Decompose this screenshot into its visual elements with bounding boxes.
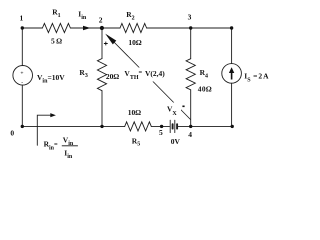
label node 0 bbox=[10, 129, 14, 138]
svg-text:R2: R2 bbox=[126, 10, 134, 21]
label Rin equation bbox=[44, 140, 58, 152]
resistor R3 bbox=[97, 59, 106, 91]
label R5 bbox=[132, 136, 140, 147]
arrowhead VTH bbox=[105, 34, 116, 45]
arrow inside IS source bbox=[229, 67, 234, 79]
junction top-right bbox=[230, 26, 233, 29]
svg-text:4: 4 bbox=[188, 130, 192, 139]
label node 3 bbox=[188, 13, 192, 22]
label node 2 bbox=[99, 15, 103, 24]
label 20 Ohm bbox=[106, 72, 120, 81]
wire: R5 to node 5 to battery bbox=[151, 125, 169, 127]
svg-text:1: 1 bbox=[20, 13, 24, 22]
wire: R3 bottom to bottom wire bbox=[101, 91, 103, 127]
wire top: node1 to R1 bbox=[22, 27, 42, 29]
label Iin current bbox=[78, 10, 87, 21]
label 5 Ohm bbox=[51, 37, 62, 46]
svg-text:Vin: Vin bbox=[63, 135, 74, 147]
svg-text:10Ω: 10Ω bbox=[128, 38, 142, 47]
wire: R1 to node 2 bbox=[70, 27, 102, 29]
wire: node 2 to R2 bbox=[102, 27, 120, 29]
label node 1 bbox=[20, 13, 24, 22]
arrowhead Rin bbox=[50, 113, 56, 117]
wire: current source bottom to bottom-right corner bbox=[231, 83, 233, 126]
resistor R4 bbox=[186, 59, 195, 90]
node 2 junction bbox=[100, 26, 104, 30]
label R1 bbox=[52, 8, 60, 19]
label R2 bbox=[126, 10, 134, 21]
wire: top-right corner down to current source bbox=[231, 28, 233, 64]
label VTH = V(2,4) bbox=[124, 69, 165, 81]
node 0 junction bbox=[21, 125, 24, 128]
arrow Rin probe bbox=[37, 115, 51, 145]
label mask VX bbox=[166, 103, 181, 118]
junction bottom-right bbox=[231, 125, 234, 128]
svg-text:IS=2A: IS=2A bbox=[244, 71, 269, 83]
wire: R4 bottom to node 4 bbox=[190, 90, 192, 126]
svg-text:R5: R5 bbox=[132, 136, 140, 147]
minus sign VX small bbox=[182, 105, 184, 107]
wire: R2 to node 3 to top-right corner bbox=[147, 27, 232, 29]
svg-text:Rin=: Rin= bbox=[44, 140, 58, 152]
wire branch R3: node 2 down bbox=[101, 28, 103, 59]
battery VX plates bbox=[170, 120, 177, 132]
svg-text:10Ω: 10Ω bbox=[128, 108, 142, 117]
svg-text:+: + bbox=[20, 71, 23, 77]
svg-text:3: 3 bbox=[188, 13, 192, 22]
svg-text:0: 0 bbox=[10, 129, 14, 138]
label R4 bbox=[200, 68, 208, 79]
resistor R2 bbox=[120, 23, 147, 32]
svg-text:R1: R1 bbox=[52, 8, 60, 19]
arrow VTH diagonal line node4 to node2 bbox=[108, 36, 191, 120]
plus sign Vin inside bbox=[20, 71, 23, 77]
label 0V battery bbox=[171, 137, 181, 146]
voltage source Vin circle bbox=[13, 66, 33, 86]
label VX bbox=[167, 105, 177, 117]
fraction Vin numerator bbox=[63, 135, 74, 147]
label 40 Ohm bbox=[198, 84, 212, 93]
svg-text:0V: 0V bbox=[171, 137, 181, 146]
minus sign Vin inside bbox=[21, 80, 23, 86]
wire: Vin bottom to node 0 bbox=[21, 85, 23, 126]
current source IS circle bbox=[222, 64, 242, 84]
label mask VTH bbox=[124, 68, 167, 82]
node 1 junction bbox=[21, 26, 24, 29]
node 5 junction bbox=[160, 125, 163, 128]
junction R3 bottom bbox=[100, 125, 103, 128]
svg-text:40Ω: 40Ω bbox=[198, 84, 212, 93]
fraction bar bbox=[62, 145, 78, 147]
resistor R5 bbox=[125, 122, 152, 131]
plus sign VTH at node 2 bbox=[104, 42, 108, 46]
label Vin=10V bbox=[37, 73, 65, 85]
svg-text:Vin=10V: Vin=10V bbox=[37, 73, 65, 85]
svg-text:R3: R3 bbox=[79, 68, 87, 79]
label R3 bbox=[79, 68, 87, 79]
label node 4 bbox=[188, 130, 192, 139]
svg-text:5: 5 bbox=[159, 128, 163, 137]
label 10 Ohm R2 bbox=[128, 38, 142, 47]
arrowhead Iin bbox=[83, 26, 91, 31]
node 4 junction bbox=[189, 125, 192, 128]
svg-text:2: 2 bbox=[99, 15, 103, 24]
svg-text:R4: R4 bbox=[200, 68, 208, 79]
label node 5 bbox=[159, 128, 163, 137]
svg-text:-: - bbox=[21, 80, 23, 86]
wire bottom: node 0 to R5 bbox=[22, 125, 124, 127]
label IS = 2A bbox=[244, 71, 269, 83]
wire: battery to node 4 to bottom-right bbox=[178, 125, 232, 127]
node 3 junction bbox=[189, 26, 192, 29]
wire left vertical: node1 down to Vin source bbox=[21, 28, 23, 66]
fraction Iin denominator bbox=[64, 148, 73, 160]
svg-text:Iin: Iin bbox=[78, 10, 87, 21]
label 10 Ohm R5 bbox=[128, 108, 142, 117]
svg-text:5 Ω: 5 Ω bbox=[51, 37, 62, 46]
svg-text:Iin: Iin bbox=[64, 148, 73, 160]
resistor R1 bbox=[42, 23, 70, 32]
wire branch R4: node 3 down bbox=[190, 28, 192, 59]
svg-text:20Ω: 20Ω bbox=[106, 72, 120, 81]
